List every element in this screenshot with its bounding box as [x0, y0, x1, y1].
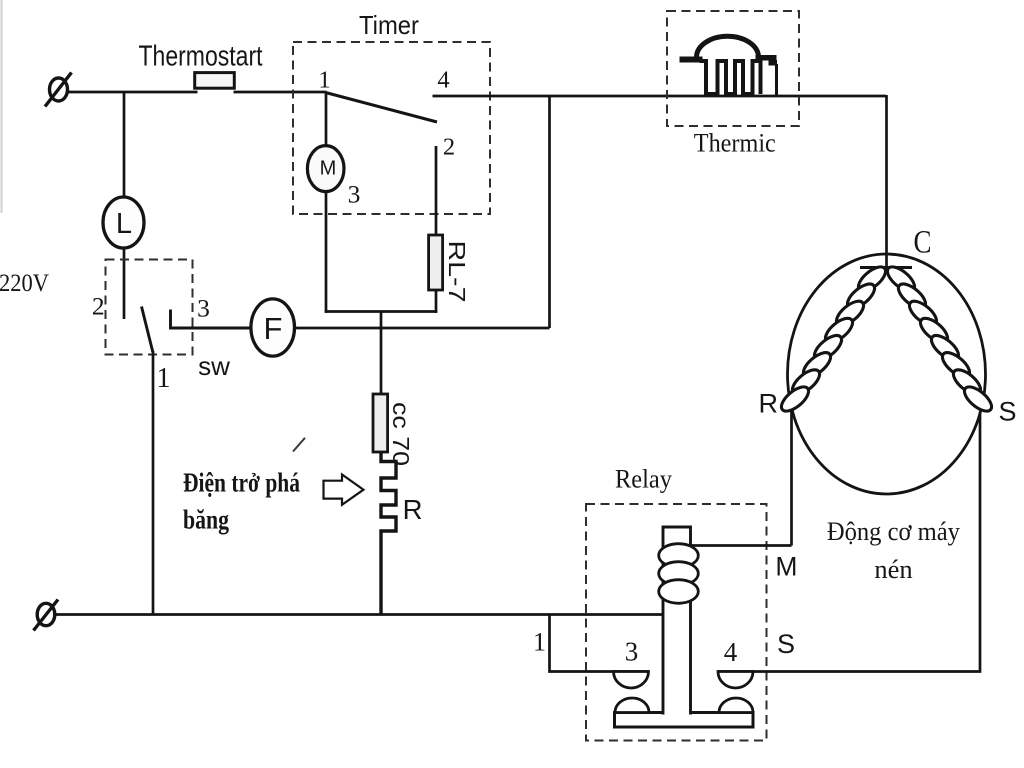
svg-text:M: M: [320, 158, 337, 180]
wire timer motor branch: [325, 93, 328, 147]
wire junction down to fuse: [380, 312, 383, 395]
svg-text:Thermostart: Thermostart: [139, 41, 263, 73]
thermic right terminal: [756, 55, 777, 61]
svg-text:1: 1: [533, 628, 546, 657]
svg-text:RL-7: RL-7: [444, 241, 470, 303]
svg-text:Điện trở phá: Điện trở phá: [183, 468, 300, 498]
fuse RL-7: [429, 235, 443, 290]
annotation block arrow: [324, 475, 364, 505]
thermic box: [667, 11, 799, 126]
svg-text:nén: nén: [874, 554, 912, 584]
svg-text:S: S: [998, 397, 1016, 427]
wire riser M to motor R: [790, 409, 793, 546]
relay coil loop 3: [659, 580, 699, 604]
motor shell: [788, 254, 986, 494]
wire lamp to door switch: [123, 248, 126, 319]
relay box: [586, 504, 767, 741]
svg-text:L: L: [116, 208, 132, 240]
svg-text:2: 2: [443, 134, 455, 161]
timer motor M: [307, 146, 344, 192]
relay armature bar: [615, 713, 754, 728]
thermostat contact Thermostart: [195, 73, 235, 89]
relay moving contact 3 dome: [615, 698, 649, 713]
wire junction bar: [325, 310, 438, 313]
thermic left terminal: [680, 57, 703, 63]
thermic right terminal step: [769, 60, 778, 66]
svg-text:băng: băng: [183, 505, 229, 535]
start winding C-S: [883, 263, 995, 416]
relay fixed contact 3 dome: [614, 672, 649, 689]
wire timer contact 4 rail: [433, 95, 887, 98]
svg-text:4: 4: [437, 67, 449, 94]
switch arm sw: [142, 307, 153, 353]
wire timer contact 2 down: [435, 146, 438, 236]
scan artifact left edge: [1, 0, 3, 213]
svg-text:3: 3: [625, 637, 639, 667]
phase terminal bottom: [34, 600, 59, 631]
timer box: [293, 42, 490, 214]
svg-text:Động cơ máy: Động cơ máy: [827, 516, 961, 546]
wire contact 4 to motor S: [718, 412, 980, 672]
defrost resistor R meander: [381, 452, 396, 615]
wire sw contact 1 to bottom rail: [152, 351, 155, 615]
wire RL-7 to junction bar: [435, 290, 438, 313]
svg-text:Relay: Relay: [615, 465, 672, 494]
svg-text:R: R: [403, 494, 423, 525]
thermic right leg: [775, 64, 778, 96]
relay moving contact 4 dome: [719, 698, 753, 713]
wire node 1 to contact 3: [550, 615, 650, 672]
wire riser from top rail: [548, 95, 551, 328]
wire motor C lead: [885, 95, 888, 268]
fan motor F: [251, 299, 295, 356]
svg-text:1: 1: [318, 67, 330, 94]
phase terminal top: [45, 73, 72, 107]
relay coil loop 2: [659, 562, 699, 586]
wire relay coil to M riser: [690, 544, 792, 547]
svg-text:F: F: [264, 311, 283, 346]
svg-text:S: S: [777, 629, 795, 659]
label RL-7: [444, 241, 470, 303]
svg-text:cc 70: cc 70: [388, 402, 414, 466]
wire top rail: [68, 91, 327, 94]
wire M to junction bar: [325, 191, 328, 313]
lamp L: [103, 197, 144, 248]
svg-text:2: 2: [92, 292, 105, 321]
annotation slash: [293, 438, 305, 452]
svg-text:sw: sw: [198, 351, 230, 381]
relay coil loop 1: [659, 544, 699, 568]
svg-text:Thermic: Thermic: [694, 129, 776, 158]
door switch box sw: [106, 260, 193, 355]
relay plunger core: [663, 527, 691, 715]
label cc 70: [388, 402, 414, 466]
fuse cc 70: [373, 394, 388, 452]
svg-text:3: 3: [348, 180, 361, 209]
sw contact 3 and wire to fan: [171, 310, 252, 329]
svg-text:220V: 220V: [0, 268, 50, 297]
svg-text:1: 1: [157, 363, 171, 394]
svg-text:4: 4: [724, 637, 738, 667]
thermic bimetal dome: [696, 36, 758, 57]
timer switch arm: [326, 93, 438, 123]
svg-text:3: 3: [197, 294, 210, 323]
wire fan to riser: [295, 327, 550, 330]
wire branch to lamp: [123, 92, 126, 198]
thermic heater comb: [700, 61, 761, 94]
svg-text:C: C: [914, 225, 932, 261]
svg-text:Timer: Timer: [359, 10, 419, 40]
relay fixed contact 4 dome: [718, 672, 753, 689]
winding top connector: [860, 266, 912, 269]
svg-text:R: R: [759, 389, 779, 419]
wire bottom rail: [55, 613, 665, 616]
run winding C-R: [777, 263, 889, 416]
svg-text:M: M: [775, 552, 797, 582]
